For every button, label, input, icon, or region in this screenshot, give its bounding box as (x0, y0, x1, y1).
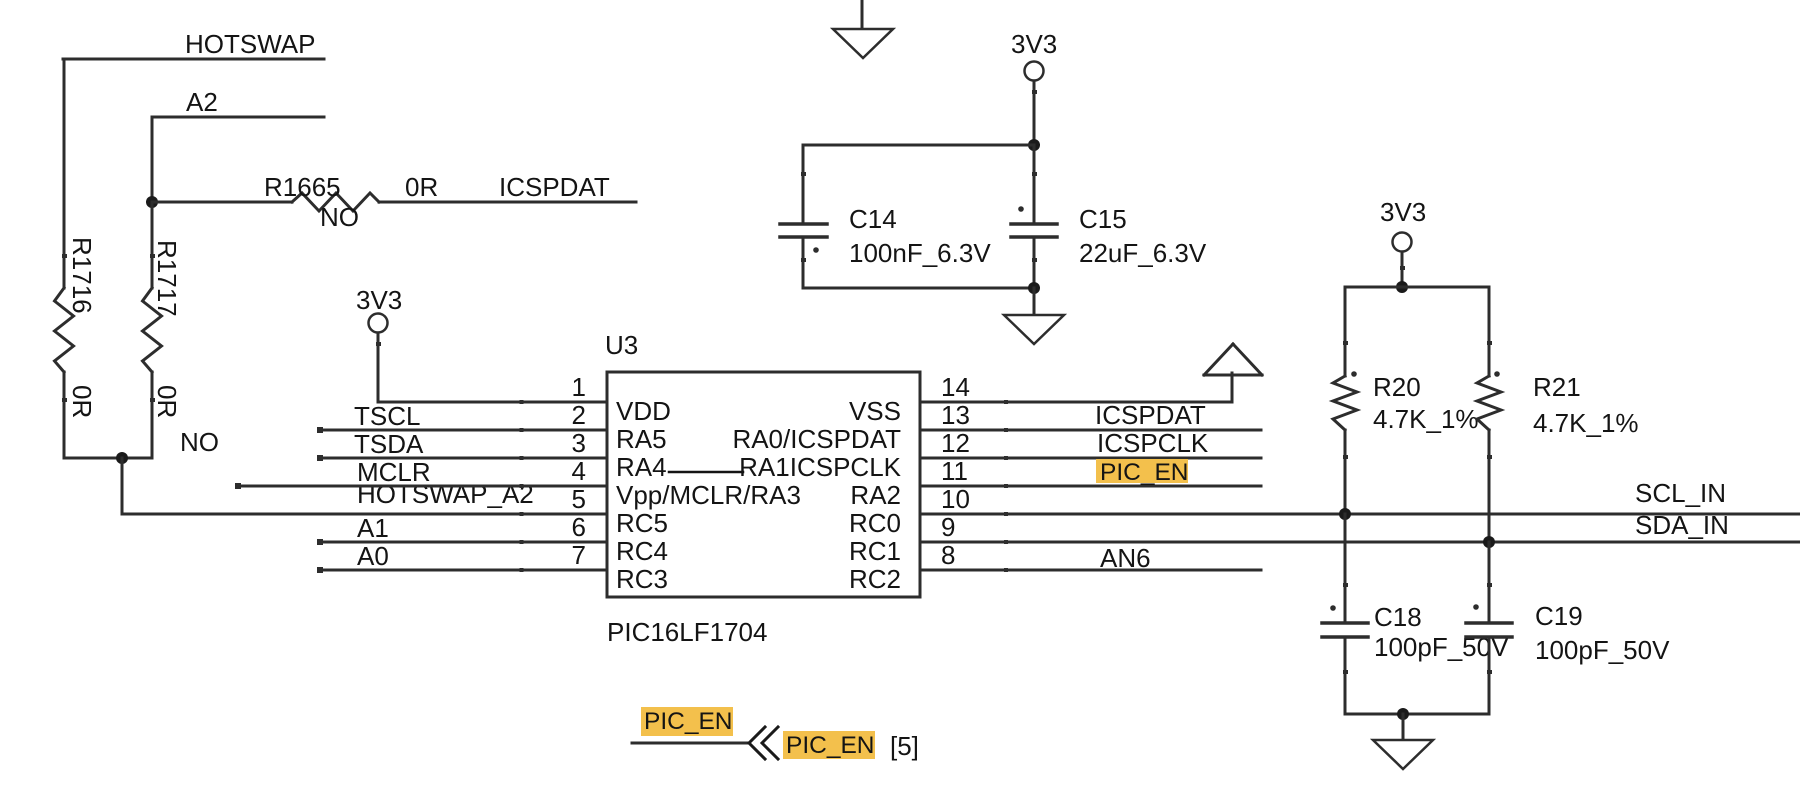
ground top middle (861, 0, 864, 29)
svg-text:3V3: 3V3 (1011, 29, 1057, 59)
wire pin14 vertical (1231, 373, 1234, 402)
svg-text:R1717: R1717 (152, 240, 182, 317)
pin end ticks left wires (235, 400, 524, 573)
svg-text:8: 8 (941, 540, 955, 570)
capacitor C19 (1466, 542, 1512, 714)
svg-text:RC0: RC0 (849, 508, 901, 538)
pin end ticks right wires (1004, 400, 1008, 572)
svg-text:22uF_6.3V: 22uF_6.3V (1079, 238, 1207, 268)
wire pin14 VSS (920, 401, 1232, 404)
svg-text:ICSPCLK: ICSPCLK (1097, 428, 1209, 458)
svg-text:RC1: RC1 (849, 536, 901, 566)
wire pin13 ICSPDAT (920, 429, 1261, 432)
svg-text:6: 6 (572, 512, 586, 542)
wire A2 horizontal (152, 116, 324, 119)
svg-text:100pF_50V: 100pF_50V (1535, 635, 1670, 665)
net label PIC_EN highlighted right (783, 731, 875, 759)
ground below C15 (1033, 288, 1036, 315)
svg-text:U3: U3 (605, 330, 638, 360)
svg-text:C18: C18 (1374, 602, 1422, 632)
wire vertical A2 to node (151, 117, 154, 202)
svg-text:3V3: 3V3 (1380, 197, 1426, 227)
node junction A2/R1665/R1717 (146, 196, 158, 208)
node junction R20 SCL (1339, 508, 1351, 520)
capacitor C14 (780, 145, 827, 288)
svg-text:7: 7 (572, 540, 586, 570)
wire pin2 TSCL (320, 429, 607, 432)
net label PIC_EN pin11 highlighted (1096, 459, 1188, 483)
wire pin9 SDA_IN (920, 541, 1800, 544)
svg-text:RA0/ICSPDAT: RA0/ICSPDAT (732, 424, 901, 454)
svg-text:4: 4 (572, 456, 586, 486)
svg-text:VDD: VDD (616, 396, 671, 426)
wire 3V3 stem to pin1 (377, 333, 380, 402)
svg-text:C14: C14 (849, 204, 897, 234)
svg-text:1: 1 (572, 372, 586, 402)
wire PIC_EN (632, 742, 748, 745)
resistor R1665 (292, 193, 379, 211)
svg-text:PIC_EN: PIC_EN (644, 708, 733, 735)
svg-text:4.7K_1%: 4.7K_1% (1373, 404, 1479, 434)
svg-text:C19: C19 (1535, 601, 1583, 631)
wire 3V3 stem (1401, 252, 1404, 287)
node junction bottom cap rail (1028, 282, 1040, 294)
wire bottom cap rail (1345, 713, 1489, 716)
symbol pin ticks resistors and stems (62, 90, 1492, 674)
svg-text:[5]: [5] (890, 731, 919, 761)
wire cap rail bottom (803, 287, 1034, 290)
node junction resistor rail (1396, 281, 1408, 293)
svg-text:TSCL: TSCL (354, 401, 420, 431)
node junction bottom (116, 452, 128, 464)
svg-text:NO: NO (320, 202, 359, 232)
svg-text:TSDA: TSDA (354, 429, 424, 459)
capacitor C18 (1322, 514, 1368, 714)
svg-text:12: 12 (941, 428, 970, 458)
svg-text:RA5: RA5 (616, 424, 667, 454)
resistor R1717 (143, 288, 162, 372)
svg-text:R1716: R1716 (67, 237, 97, 314)
svg-text:RC3: RC3 (616, 564, 668, 594)
svg-text:MCLR: MCLR (357, 457, 431, 487)
resistor R1716 (55, 288, 74, 372)
wire pin12 ICSPCLK (920, 457, 1261, 460)
svg-text:11: 11 (941, 456, 968, 486)
svg-text:100nF_6.3V: 100nF_6.3V (849, 238, 991, 268)
wire bottom connecting R1716 R1717 (64, 457, 152, 460)
svg-text:SDA_IN: SDA_IN (1635, 510, 1729, 540)
wire node to R1665 (152, 201, 292, 204)
off-page connector chevrons (749, 727, 778, 759)
node junction bottom rail (1397, 708, 1409, 720)
ground bottom right (1402, 714, 1405, 740)
svg-text:ICSPDAT: ICSPDAT (499, 172, 610, 202)
svg-text:PIC16LF1704: PIC16LF1704 (607, 617, 767, 647)
wire pin4 MCLR (238, 485, 607, 488)
svg-text:A2: A2 (186, 87, 218, 117)
svg-text:R1665: R1665 (264, 172, 341, 202)
svg-text:RA1ICSPCLK: RA1ICSPCLK (739, 452, 901, 482)
svg-text:9: 9 (941, 512, 955, 542)
wire junction down (121, 458, 124, 514)
wire R1717 top (151, 202, 154, 288)
wire vertical from HOTSWAP to R1716 (63, 59, 66, 288)
wire pin3 TSDA (320, 457, 607, 460)
svg-text:HOTSWAP: HOTSWAP (185, 29, 315, 59)
svg-text:NO: NO (180, 427, 219, 457)
svg-text:AN6: AN6 (1100, 543, 1151, 573)
wire 3V3 stem down (1033, 81, 1036, 145)
svg-text:14: 14 (941, 372, 970, 402)
svg-text:A1: A1 (357, 513, 389, 543)
svg-text:A0: A0 (357, 541, 389, 571)
wire R1665 to ICSPDAT (379, 201, 636, 204)
svg-text:4.7K_1%: 4.7K_1% (1533, 408, 1639, 438)
svg-text:0R: 0R (67, 385, 97, 418)
svg-text:5: 5 (572, 484, 586, 514)
node junction top cap rail (1028, 139, 1040, 151)
wire pin7 A0 (320, 569, 607, 572)
svg-text:0R: 0R (405, 172, 438, 202)
capacitor C15 (1011, 145, 1057, 288)
wire pin6 A1 (320, 541, 607, 544)
wire pin8 AN6 (920, 569, 1261, 572)
power arrow VSS (1204, 344, 1262, 375)
wire R1717 bottom (151, 372, 154, 458)
svg-text:RC4: RC4 (616, 536, 668, 566)
svg-text:RA2: RA2 (850, 480, 901, 510)
wire HOTSWAP_A2 to pin5 (122, 513, 607, 516)
net label PIC_EN highlighted left (641, 707, 733, 736)
svg-text:2: 2 (572, 400, 586, 430)
svg-text:SCL_IN: SCL_IN (1635, 478, 1726, 508)
svg-text:PIC_EN: PIC_EN (1100, 459, 1189, 486)
svg-text:RA4: RA4 (616, 452, 667, 482)
svg-text:PIC_EN: PIC_EN (786, 732, 875, 759)
svg-text:Vpp/MCLR/RA3: Vpp/MCLR/RA3 (616, 480, 801, 510)
wire pin11 PIC_EN (920, 485, 1261, 488)
svg-text:R20: R20 (1373, 372, 1421, 402)
svg-text:3V3: 3V3 (356, 285, 402, 315)
wire pin10 SCL_IN (920, 513, 1800, 516)
svg-text:RC5: RC5 (616, 508, 668, 538)
svg-text:ICSPDAT: ICSPDAT (1095, 400, 1206, 430)
wire HOTSWAP horizontal (63, 58, 324, 61)
wire resistor rail top (1345, 286, 1489, 289)
node junction R21 SDA (1483, 536, 1495, 548)
resistor R21 (1477, 287, 1501, 542)
svg-text:R21: R21 (1533, 372, 1581, 402)
op IC U3 body (607, 372, 920, 597)
svg-text:0R: 0R (152, 385, 182, 418)
svg-text:10: 10 (941, 484, 970, 514)
resistor R20 (1333, 287, 1357, 514)
svg-text:RC2: RC2 (849, 564, 901, 594)
svg-text:C15: C15 (1079, 204, 1127, 234)
wire R1716 bottom (63, 372, 66, 458)
wire pin1 VDD (378, 401, 607, 404)
svg-text:VSS: VSS (849, 396, 901, 426)
overbar MCLR (669, 471, 743, 474)
svg-text:13: 13 (941, 400, 970, 430)
wire cap rail top (803, 144, 1034, 147)
svg-text:3: 3 (572, 428, 586, 458)
